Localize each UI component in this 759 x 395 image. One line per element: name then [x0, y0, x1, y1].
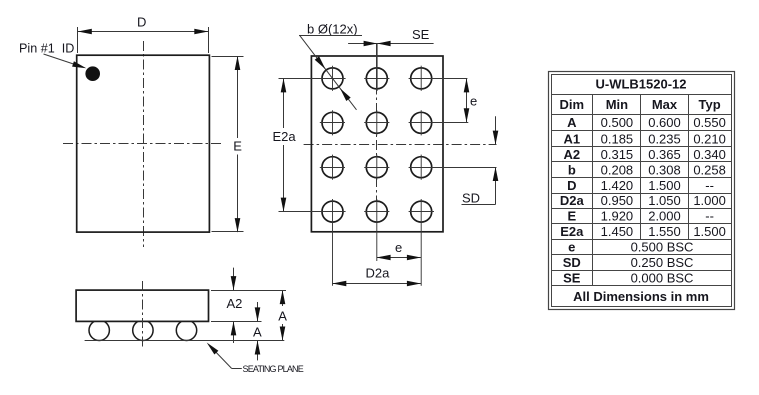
top view package outline — [77, 55, 210, 232]
ball r3c3 — [411, 157, 432, 178]
svg-text:0.000 BSC: 0.000 BSC — [631, 270, 694, 285]
svg-text:0.340: 0.340 — [693, 147, 726, 162]
dimension E extension lines — [212, 57, 244, 232]
label SEATING PLANE — [243, 364, 304, 374]
svg-text:Pin #1 ID: Pin #1 ID — [19, 42, 74, 56]
ball r4c1 — [322, 201, 343, 222]
row4 cross lines and E2a extension — [279, 211, 435, 213]
svg-text:All Dimensions in mm: All Dimensions in mm — [573, 289, 709, 304]
svg-text:SD: SD — [462, 190, 480, 205]
svg-text:1.500: 1.500 — [648, 178, 681, 193]
svg-text:Typ: Typ — [699, 97, 721, 112]
col2 vertical cross lines with SE and e extensions — [376, 44, 378, 261]
label b diameter — [299, 21, 362, 36]
svg-text:0.550: 0.550 — [693, 115, 726, 130]
svg-text:E2a: E2a — [560, 224, 584, 239]
dimension e bottom line — [377, 255, 421, 261]
svg-text:e: e — [470, 93, 477, 108]
svg-text:A: A — [278, 308, 287, 323]
dimension E line — [235, 56, 241, 232]
pin 1 leader arrow — [44, 54, 87, 68]
table footer — [573, 289, 709, 304]
side view ball 3 — [176, 320, 196, 340]
label e right — [470, 93, 477, 108]
table row A — [567, 115, 726, 130]
dimension D line — [78, 29, 209, 35]
svg-text:b: b — [568, 162, 576, 177]
label inner A — [253, 325, 262, 340]
svg-text:D2a: D2a — [560, 193, 585, 208]
svg-text:1.500: 1.500 — [693, 224, 726, 239]
svg-text:1.920: 1.920 — [601, 208, 634, 223]
table header row — [560, 97, 721, 112]
ball r2c3 — [411, 112, 432, 133]
svg-text:D: D — [137, 15, 146, 30]
table row SD — [563, 255, 694, 270]
table outer border — [549, 72, 735, 310]
ball r3c1 — [322, 157, 343, 178]
label D2a — [366, 265, 391, 280]
label SD — [462, 190, 480, 205]
svg-text:1.050: 1.050 — [648, 193, 681, 208]
svg-text:b Ø(12x): b Ø(12x) — [307, 21, 358, 36]
ball r4c3 — [411, 201, 432, 222]
row3 cross lines and SD extension — [320, 167, 497, 169]
table row A1 — [563, 131, 725, 146]
svg-text:0.950: 0.950 — [601, 193, 634, 208]
svg-text:0.600: 0.600 — [648, 115, 681, 130]
col3 vertical cross lines and D2a extension — [420, 66, 422, 286]
ball r1c3 — [411, 68, 432, 89]
label D — [137, 15, 146, 30]
table row D2a — [560, 193, 726, 208]
ball r1c2 — [366, 68, 387, 89]
table row E2a — [560, 224, 726, 239]
bottom view vertical centerline — [376, 66, 378, 223]
side view vertical centerline — [142, 281, 144, 347]
svg-text:A: A — [567, 115, 577, 130]
top view horizontal centerline — [63, 143, 222, 145]
ball r4c2 — [366, 201, 387, 222]
side view body bottom extension line — [211, 321, 262, 323]
svg-text:A2: A2 — [227, 296, 243, 311]
svg-text:0.210: 0.210 — [693, 131, 726, 146]
table row lines — [552, 95, 732, 286]
table inner border — [552, 75, 732, 307]
side view body outline — [76, 290, 208, 321]
svg-text:2.000: 2.000 — [648, 208, 681, 223]
b leader diagonal with arrows — [300, 35, 357, 110]
table row SE — [563, 270, 693, 285]
svg-text:1.000: 1.000 — [693, 193, 726, 208]
svg-text:--: -- — [705, 208, 714, 223]
side view ball 1 — [89, 320, 109, 340]
svg-text:0.258: 0.258 — [693, 162, 726, 177]
dimension D2a line — [332, 281, 421, 287]
svg-text:E2a: E2a — [273, 129, 297, 144]
svg-text:D: D — [567, 178, 576, 193]
svg-text:D2a: D2a — [366, 265, 391, 280]
ball r3c2 — [366, 157, 387, 178]
seating plane line — [85, 340, 285, 342]
svg-text:Max: Max — [652, 97, 678, 112]
table column lines — [593, 95, 689, 286]
ball r2c1 — [322, 112, 343, 133]
svg-text:0.500: 0.500 — [601, 115, 634, 130]
svg-text:0.208: 0.208 — [601, 162, 634, 177]
table row A2 — [563, 147, 725, 162]
top view vertical centerline — [143, 41, 145, 247]
ball r1c1 — [322, 68, 343, 89]
label e bottom — [395, 240, 402, 255]
table row b — [568, 162, 726, 177]
col1 vertical cross lines and D2a extension — [332, 66, 334, 286]
svg-text:e: e — [568, 239, 575, 254]
svg-text:SD: SD — [563, 255, 581, 270]
table title — [595, 77, 686, 92]
svg-text:Min: Min — [606, 97, 628, 112]
table row D — [567, 178, 714, 193]
svg-text:A2: A2 — [563, 147, 580, 162]
svg-text:0.308: 0.308 — [648, 162, 681, 177]
label E2a — [273, 129, 297, 144]
label E — [233, 139, 242, 154]
svg-text:0.500 BSC: 0.500 BSC — [631, 239, 694, 254]
table row E — [567, 208, 713, 223]
dimension SE line with opposing arrows — [348, 41, 434, 47]
row2 cross lines and e extension — [320, 122, 469, 124]
svg-text:0.250 BSC: 0.250 BSC — [631, 255, 694, 270]
label SE — [412, 27, 430, 42]
dimension D extension lines — [78, 27, 209, 53]
svg-text:A: A — [253, 325, 262, 340]
svg-text:0.365: 0.365 — [648, 147, 681, 162]
seating plane leader arrow — [207, 343, 242, 369]
svg-text:1.450: 1.450 — [601, 224, 634, 239]
bottom view package outline — [311, 56, 443, 232]
svg-text:E: E — [233, 139, 242, 154]
svg-text:0.235: 0.235 — [648, 131, 681, 146]
svg-text:E: E — [567, 208, 576, 223]
svg-text:0.185: 0.185 — [601, 131, 634, 146]
svg-text:1.420: 1.420 — [601, 178, 634, 193]
dimension A2 line — [231, 268, 237, 343]
pin 1 ID label — [19, 42, 74, 56]
pin 1 ID dot — [85, 66, 100, 81]
svg-text:SE: SE — [563, 270, 581, 285]
dimension tall A line — [280, 290, 286, 340]
dimension E2a line — [281, 78, 287, 211]
bottom view horizontal centerline — [304, 144, 497, 146]
side view body top extension line — [211, 290, 286, 292]
table row e — [568, 239, 693, 254]
dimension e right line — [464, 78, 470, 122]
svg-text:e: e — [395, 240, 402, 255]
svg-text:1.550: 1.550 — [648, 224, 681, 239]
svg-text:Dim: Dim — [560, 97, 585, 112]
svg-text:SEATING PLANE: SEATING PLANE — [243, 364, 304, 374]
svg-text:SE: SE — [412, 27, 430, 42]
side view ball 2 — [133, 320, 153, 340]
label A2 — [227, 296, 243, 311]
svg-text:U-WLB1520-12: U-WLB1520-12 — [595, 77, 686, 92]
row1 cross lines and E2a extension — [279, 78, 468, 80]
svg-text:0.315: 0.315 — [601, 147, 634, 162]
svg-text:A1: A1 — [563, 131, 580, 146]
ball r2c2 — [366, 112, 387, 133]
dimension inner A line — [255, 302, 261, 360]
dimension SD lines — [462, 116, 499, 204]
svg-text:--: -- — [705, 178, 714, 193]
label tall A — [278, 308, 287, 323]
